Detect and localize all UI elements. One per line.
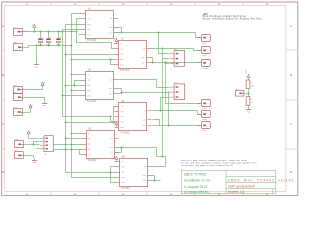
wire X8 to divider (244, 93, 249, 95)
junction (121, 32, 123, 34)
wire net A to pad P1 (122, 33, 201, 38)
svg-text:100n: 100n (46, 44, 50, 46)
wire GND drop (36, 46, 38, 64)
wire U3 pin5 (63, 95, 82, 97)
svg-text:GND: GND (43, 105, 46, 107)
svg-text:VS: VS (236, 89, 238, 91)
wire net C down to pad P4 (166, 63, 201, 104)
capacitor C1 100u (38, 32, 43, 47)
wire X1 to +5V rail (23, 31, 27, 33)
connector X3 (14, 85, 23, 94)
svg-text:nicht gespeichert!: nicht gespeichert! (228, 185, 255, 189)
svg-text:driver extension board for Ard: driver extension board for Arduino Pro M… (203, 17, 263, 20)
junction (48, 45, 50, 47)
svg-text:D: D (290, 170, 292, 174)
capacitor C2 100n (46, 32, 51, 47)
connector header SV3 (170, 82, 185, 100)
junction (65, 144, 67, 146)
svg-text:C3: C3 (60, 37, 62, 39)
wire riser U6 pin2 to pin5 (111, 167, 115, 183)
wire X4 to GND (23, 98, 45, 102)
junction (162, 48, 164, 50)
svg-text:GND: GND (14, 42, 17, 44)
connector P2 (198, 47, 211, 57)
svg-text:IN: IN (143, 110, 145, 113)
svg-text:R1: R1 (251, 82, 253, 84)
junction (158, 32, 160, 34)
driver IC U2 TC4452 (114, 38, 152, 73)
ground GND4 (248, 108, 250, 109)
junction (36, 45, 38, 47)
svg-text:GND: GND (33, 162, 36, 164)
svg-text:IN: IN (120, 42, 122, 45)
wire U4 OUT tie (153, 120, 160, 126)
wire long vertical net B (162, 59, 164, 157)
svg-text:The project web page is http:/: The project web page is http://www.olliw… (181, 164, 233, 167)
junction (76, 31, 78, 33)
svg-text:+5V: +5V (30, 131, 32, 134)
wire U3 pin4 (72, 90, 82, 92)
connector X5 (14, 107, 23, 116)
wire net +5V rail (23, 31, 77, 33)
power +5V P4 (28, 134, 30, 138)
wire U3 OUT tie (119, 89, 122, 94)
wire SV1 to U5 pin3 (54, 144, 82, 146)
wire U6 out stub (155, 180, 161, 182)
ground GND1 (36, 63, 38, 64)
junction (162, 156, 164, 158)
wire divider mid (248, 89, 250, 97)
svg-text:SCL: SCL (15, 150, 18, 152)
wire +5V to SV1 pin1 (29, 138, 40, 140)
svg-text:IN: IN (143, 47, 145, 50)
wire riser to U4 pin1 (114, 107, 115, 123)
junction (121, 92, 123, 94)
junction (71, 133, 73, 135)
svg-text:OUT3: OUT3 (203, 68, 207, 70)
power +5V P2 (42, 85, 44, 89)
connector X8 (236, 89, 244, 96)
svg-text:TC4452: TC4452 (121, 187, 131, 190)
svg-text:GND: GND (247, 111, 250, 113)
svg-text:Schaltplan v1.03: Schaltplan v1.03 (184, 179, 210, 183)
frame outer border (2, 2, 298, 195)
wire U5 out run (122, 148, 163, 157)
power +5V at U4 pin5 (116, 125, 118, 127)
svg-text:TC4452: TC4452 (87, 159, 97, 162)
svg-text:OUT6: OUT6 (203, 130, 207, 132)
junction (121, 147, 123, 149)
junction (71, 31, 73, 33)
junction (65, 122, 67, 124)
svg-text:U4: U4 (121, 100, 125, 103)
svg-text:(c) www.olliw.eu: (c) www.olliw.eu (184, 190, 209, 194)
junction (110, 172, 112, 174)
svg-text:4k7: 4k7 (251, 102, 254, 104)
svg-text:OUT4: OUT4 (203, 108, 207, 110)
resistor R2 4k7 (246, 97, 254, 106)
wire net B to SV2 pin2 (163, 49, 170, 59)
capacitor C3 100n (56, 32, 61, 47)
connector P5 (198, 111, 211, 121)
wire SV1 to U5 pin4 (54, 149, 82, 151)
connector P3 (198, 60, 211, 70)
junction (65, 54, 67, 56)
frame column dividers top/bottom (50, 2, 52, 5)
junction (71, 90, 73, 92)
junction (48, 31, 50, 33)
junction (152, 62, 154, 64)
svg-text:SV2: SV2 (174, 49, 177, 51)
junction (33, 144, 35, 146)
junction (168, 125, 170, 127)
junction (58, 31, 60, 33)
connector X1 (14, 27, 23, 36)
power +5V at U2 pin1 (116, 41, 118, 43)
svg-text:RC1: RC1 (14, 85, 17, 87)
junction (71, 45, 73, 47)
junction (40, 45, 42, 47)
connector X4 (14, 92, 23, 101)
svg-text:IN: IN (88, 132, 90, 135)
svg-text:U2: U2 (121, 38, 125, 41)
wire U4 OUT join (160, 125, 169, 127)
ground GND3 (34, 159, 36, 160)
power VBAT arrow (248, 78, 250, 81)
svg-text:IN: IN (121, 105, 123, 108)
title block outline (181, 170, 275, 193)
svg-text:U5: U5 (88, 128, 92, 131)
svg-text:C2: C2 (50, 37, 52, 39)
junction (71, 74, 73, 76)
wire X6 to SV1 (24, 144, 40, 146)
wire X3 to +5V (23, 89, 43, 91)
junction (62, 95, 64, 97)
wire U1 pin2 drop to U2 pin2 (77, 19, 114, 49)
wire net C to pad P3 (153, 62, 201, 64)
wire X7 to GND (24, 156, 34, 159)
junction (160, 110, 162, 112)
junction (154, 180, 156, 182)
connector P1 (198, 35, 211, 45)
svg-text:U1: U1 (88, 8, 92, 11)
power +5V P1 (34, 27, 36, 31)
connector P4 (198, 100, 211, 110)
svg-text:100n: 100n (56, 44, 60, 46)
svg-text:IN: IN (121, 160, 123, 163)
junction (168, 92, 170, 94)
power +5V P3 (30, 108, 32, 112)
driver IC U4 TC4452 (115, 100, 152, 135)
junction (165, 62, 167, 64)
wire U5 OUT tie (115, 148, 122, 153)
connector header SV2 (170, 49, 185, 67)
resistor R1 10k (246, 80, 254, 89)
svg-text:TC4452: TC4452 (120, 69, 130, 72)
connector header SV1 (40, 136, 54, 157)
wire X5 to +5V (23, 112, 31, 114)
wire net F to pad P5 (153, 111, 201, 115)
svg-text:eBDC TC4452: eBDC TC4452 (184, 173, 207, 177)
junction (248, 93, 250, 95)
svg-text:IN: IN (144, 165, 146, 168)
svg-text:C: C (290, 122, 292, 126)
wire net bus VC U1 pin4 down (63, 30, 111, 117)
connector X2 (14, 42, 23, 51)
wire net B to pad P2 (152, 49, 201, 51)
wire to U6 right pin1 (152, 157, 166, 167)
svg-text:RC3: RC3 (14, 107, 17, 109)
wire U3 pin2 drop (75, 81, 82, 86)
wire U5 pin2 (66, 138, 82, 140)
wire U3 pin1 (72, 74, 82, 76)
svg-text:R2: R2 (251, 99, 253, 101)
svg-text:U6: U6 (122, 155, 126, 158)
junction (74, 85, 76, 87)
svg-text:TC4452: TC4452 (87, 100, 97, 103)
svg-text:TC4452: TC4452 (120, 132, 130, 135)
junction (110, 116, 112, 118)
wire riser to U5 pin5 (80, 150, 82, 155)
driver IC U1 TC4452 (81, 8, 119, 43)
svg-text:IN: IN (110, 17, 112, 20)
wire U1 pin5 stub (79, 34, 81, 36)
junction (58, 45, 60, 47)
power +5V at U6 pin1 (116, 159, 118, 161)
wire net C to SV2 pin3 (166, 63, 170, 65)
svg-text:100u: 100u (38, 44, 42, 46)
svg-text:D: D (2, 170, 4, 174)
svg-text:GND: GND (35, 67, 38, 69)
driver IC U3 TC4452 (82, 69, 119, 104)
svg-text:4. August 2013: 4. August 2013 (184, 185, 207, 189)
wire SV1 pin2 (34, 142, 40, 145)
svg-text:IN: IN (87, 12, 89, 15)
junction (65, 149, 67, 151)
wire X2 to GND rail (23, 47, 29, 49)
wire U3 pin3 (66, 85, 82, 87)
svg-text:VBAT: VBAT (244, 70, 247, 74)
wire bus lower run (66, 122, 114, 124)
svg-text:+5V: +5V (114, 38, 116, 41)
svg-text:C: C (2, 122, 4, 126)
ground GND2 (44, 102, 46, 103)
frame inner border (5, 5, 286, 191)
svg-text:IN: IN (110, 78, 112, 81)
svg-text:IN: IN (87, 73, 89, 76)
junction (110, 59, 112, 61)
svg-text:+5V: +5V (32, 104, 34, 107)
svg-text:Sheets 1/1: Sheets 1/1 (228, 190, 245, 194)
svg-text:OUT1: OUT1 (203, 43, 207, 45)
wire net bus VA U1 pin3 to U6 pin3 (66, 25, 116, 173)
wire net bus VB U1 pin1 to U6 pin4 (72, 14, 115, 178)
wire SV1 pin4 stub (37, 148, 40, 150)
wire net F to SV3 pin3 (161, 98, 170, 111)
junction (113, 122, 115, 124)
connector X6 (15, 138, 24, 148)
junction (65, 138, 67, 140)
svg-text:SV3: SV3 (174, 82, 177, 84)
junction (62, 31, 64, 33)
wire divider bottom (248, 106, 250, 109)
svg-text:TC4452: TC4452 (87, 39, 97, 42)
svg-text:eBDC_Mini_TC4452_ver103: eBDC_Mini_TC4452_ver103 (228, 178, 295, 182)
wire U2 OUT tie (152, 58, 153, 63)
svg-text:IN: IN (110, 137, 112, 140)
svg-text:C1: C1 (42, 37, 44, 39)
svg-text:SV1: SV1 (44, 154, 47, 156)
svg-text:+5V: +5V (114, 156, 116, 159)
wire riser to U2 pin5 (111, 60, 114, 65)
wire bus to U2 pin4 (72, 59, 114, 61)
svg-text:OUT5: OUT5 (203, 119, 207, 121)
wire riser to U4 pin4 (111, 117, 115, 122)
wire net D to SV3 pin1 (119, 80, 170, 88)
driver IC U6 TC4452 (115, 155, 153, 190)
connector P6 (198, 122, 211, 132)
junction (71, 149, 73, 151)
wire net E to SV3 pin2 (122, 92, 170, 94)
driver IC U5 TC4452 (82, 128, 119, 163)
svg-text:U3: U3 (88, 69, 92, 72)
connector X7 (15, 150, 24, 159)
junction (65, 85, 67, 87)
wire U5 pin1 (72, 133, 82, 135)
wire U1 OUT tie (115, 28, 122, 33)
svg-text:+5V: +5V (44, 82, 46, 85)
svg-text:B: B (290, 73, 292, 77)
svg-text:A: A (290, 24, 292, 28)
junction (71, 144, 73, 146)
wire net E down to pad P6 (169, 93, 202, 126)
wire net GND rail (29, 46, 72, 48)
junction (71, 59, 73, 61)
wire net A to SV2 pin1 (159, 33, 170, 54)
junction (34, 31, 36, 33)
svg-text:RC2: RC2 (14, 92, 17, 94)
svg-text:B: B (2, 73, 4, 77)
junction (40, 31, 42, 33)
svg-text:A: A (2, 24, 4, 28)
wire bus to U2 pin3 (66, 54, 114, 56)
svg-text:+5V: +5V (32, 24, 34, 27)
svg-text:OUT2: OUT2 (203, 55, 207, 57)
wire U6 OUT tie (152, 176, 155, 181)
svg-text:10k: 10k (251, 86, 254, 88)
